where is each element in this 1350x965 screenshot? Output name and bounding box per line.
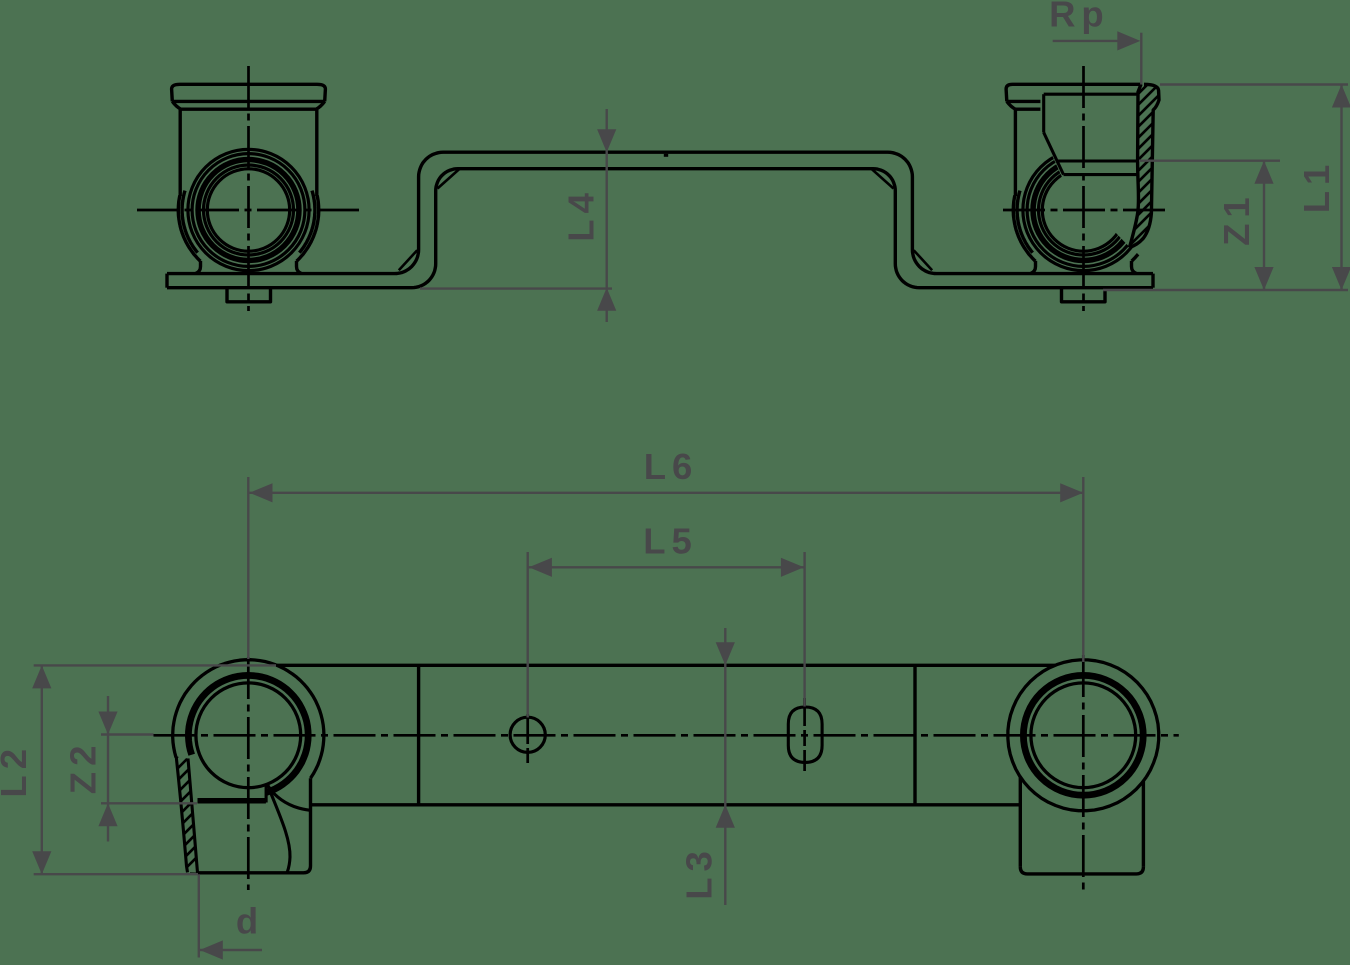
svg-text:L6: L6 [644,446,699,487]
svg-text:Z1: Z1 [1216,191,1257,246]
svg-text:Rp: Rp [1049,0,1110,34]
svg-text:L2: L2 [0,743,34,798]
svg-text:L3: L3 [678,845,719,900]
svg-text:L5: L5 [643,520,698,561]
svg-text:d: d [236,901,264,942]
svg-text:L1: L1 [1296,159,1337,214]
svg-text:Z2: Z2 [63,740,104,795]
svg-text:L4: L4 [560,187,601,242]
